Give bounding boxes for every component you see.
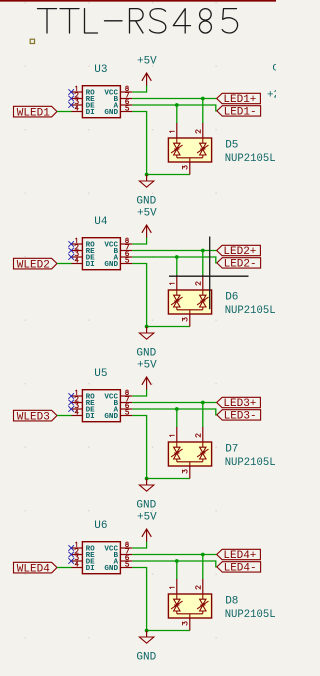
svg-text:GND: GND bbox=[104, 261, 118, 269]
svg-text:GND: GND bbox=[136, 499, 156, 511]
svg-text:+5V: +5V bbox=[137, 56, 157, 68]
svg-text:C: C bbox=[272, 63, 276, 75]
svg-text:+24V: +24V bbox=[267, 90, 276, 102]
svg-text:LED3-: LED3- bbox=[224, 410, 257, 422]
svg-text:LED1-: LED1- bbox=[224, 106, 257, 118]
svg-text:LED2+: LED2+ bbox=[223, 246, 256, 258]
svg-text:GND: GND bbox=[136, 195, 156, 207]
svg-text:+5V: +5V bbox=[137, 360, 157, 372]
svg-text:WLED2: WLED2 bbox=[17, 259, 50, 271]
svg-text:U6: U6 bbox=[94, 520, 107, 532]
svg-text:LED4-: LED4- bbox=[224, 562, 257, 574]
svg-text:GND: GND bbox=[104, 565, 118, 573]
svg-text:+5V: +5V bbox=[137, 208, 157, 220]
svg-text:GND: GND bbox=[136, 651, 156, 663]
svg-text:WLED3: WLED3 bbox=[17, 411, 50, 423]
svg-text:GND: GND bbox=[104, 413, 118, 421]
svg-text:WLED1: WLED1 bbox=[17, 107, 50, 119]
svg-text:+5V: +5V bbox=[137, 512, 157, 524]
svg-text:DI: DI bbox=[86, 109, 95, 117]
svg-text:LED3+: LED3+ bbox=[223, 398, 256, 410]
svg-text:D7: D7 bbox=[225, 444, 238, 456]
svg-text:LED1+: LED1+ bbox=[223, 94, 256, 106]
svg-text:DI: DI bbox=[86, 413, 95, 421]
svg-text:U3: U3 bbox=[94, 64, 107, 76]
svg-text:U4: U4 bbox=[94, 216, 108, 228]
svg-text:D6: D6 bbox=[225, 292, 238, 304]
svg-text:GND: GND bbox=[136, 347, 156, 359]
svg-text:DI: DI bbox=[86, 261, 95, 269]
svg-text:D8: D8 bbox=[225, 596, 238, 608]
svg-text:WLED4: WLED4 bbox=[17, 563, 50, 575]
svg-text:NUP2105L: NUP2105L bbox=[225, 457, 276, 469]
svg-text:LED4+: LED4+ bbox=[223, 550, 256, 562]
svg-text:LED2-: LED2- bbox=[224, 258, 257, 270]
svg-text:DI: DI bbox=[86, 565, 95, 573]
svg-text:U5: U5 bbox=[94, 368, 107, 380]
svg-text:NUP2105L: NUP2105L bbox=[225, 153, 276, 165]
svg-text:GND: GND bbox=[104, 109, 118, 117]
svg-text:D5: D5 bbox=[225, 140, 238, 152]
svg-text:NUP2105L: NUP2105L bbox=[225, 305, 276, 317]
svg-text:NUP2105L: NUP2105L bbox=[225, 609, 276, 621]
